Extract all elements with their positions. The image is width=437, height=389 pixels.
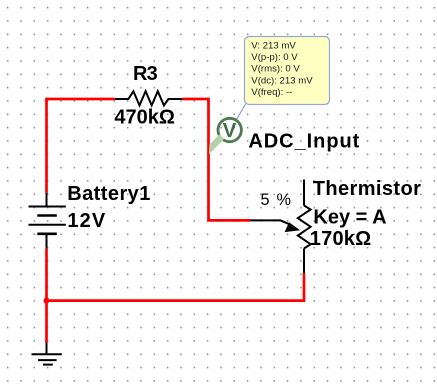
wire: bottom return wire junction to thermistor bottom (47, 273, 305, 300)
svg-text:12V: 12V (67, 210, 106, 232)
svg-text:V: 213 mV: V: 213 mV (251, 40, 296, 51)
svg-text:ADC_Input: ADC_Input (248, 131, 360, 153)
ground (32, 343, 62, 365)
node junction dot (44, 298, 50, 304)
svg-text:V(rms): 0 V: V(rms): 0 V (251, 64, 300, 75)
tooltip leader line (237, 104, 246, 120)
voltage probe V circle (218, 118, 241, 141)
wire: battery negative down to junction (45, 249, 48, 301)
svg-text:V(freq): --: V(freq): -- (251, 87, 292, 98)
svg-text:170kΩ: 170kΩ (310, 228, 372, 250)
thermistor zigzag (298, 206, 311, 249)
probe measurement tooltip (245, 37, 330, 105)
svg-text:R3: R3 (133, 63, 158, 85)
svg-text:V(dc): 213 mV: V(dc): 213 mV (251, 75, 313, 86)
svg-text:Key = A: Key = A (313, 206, 386, 228)
probe handle (212, 136, 222, 146)
svg-text:470kΩ: 470kΩ (114, 106, 175, 128)
resistor R3 symbol (zigzag) (115, 91, 183, 105)
svg-text:V(p-p): 0 V: V(p-p): 0 V (251, 52, 298, 63)
thermistor wiper arrow (250, 220, 290, 224)
thermistor (potentiometer) symbol: top stub (303, 180, 305, 206)
svg-text:V: V (223, 119, 237, 142)
wire: battery positive up left side and top to resistor (47, 99, 115, 193)
svg-text:5 %: 5 % (261, 191, 293, 209)
wire: junction down to ground (45, 301, 48, 343)
svg-text:Battery1: Battery1 (67, 183, 151, 205)
battery Battery1 symbol (29, 193, 66, 249)
wire: resistor right lead to top-right corner, down to thermistor arrow level (182, 99, 250, 220)
thermistor bottom lead (303, 249, 305, 274)
svg-text:Thermistor: Thermistor (313, 178, 421, 200)
